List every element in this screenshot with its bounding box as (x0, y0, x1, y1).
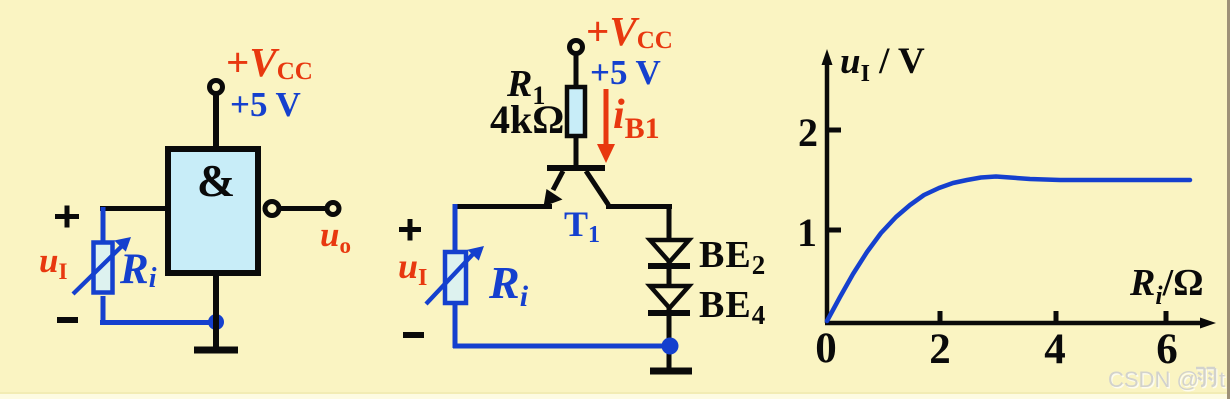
ground left (194, 347, 238, 354)
x tick 4 (1054, 311, 1059, 322)
current arrow iB1 (604, 89, 609, 148)
diode BE2 (650, 240, 689, 262)
x axis (825, 321, 1203, 326)
wire input down mid (blue) (453, 204, 458, 253)
wire Ri mid to bottom (blue) (453, 303, 458, 348)
node junction mid (blue dot) (662, 338, 679, 355)
svg-text:0: 0 (815, 325, 837, 372)
resistor R1 (567, 87, 585, 136)
diode BE4 (650, 286, 689, 308)
gate U1 box (168, 149, 258, 273)
terminal output (327, 203, 339, 215)
svg-text:t: t (1219, 367, 1225, 392)
wire Vcc to R1 (574, 54, 579, 88)
transistor T1 emitter (arrow) (553, 171, 563, 190)
x tick 2 (938, 311, 943, 322)
svg-text:+5 V: +5 V (230, 85, 301, 124)
watermark (1108, 367, 1226, 393)
wire bottom mid (blue) (453, 344, 670, 349)
wire gate to ground (213, 273, 219, 348)
label + mid (399, 219, 421, 241)
x tick 6 (1164, 311, 1169, 322)
arrow through Ri mid (426, 253, 474, 304)
wire gate input (100, 206, 165, 211)
wire BE2 to BE4 (667, 260, 672, 288)
inversion bubble (265, 202, 279, 216)
svg-text:4: 4 (1044, 326, 1066, 373)
wire BE4 to node (667, 306, 672, 368)
svg-text:4kΩ: 4kΩ (490, 97, 564, 142)
wire output (281, 206, 326, 211)
svg-text:+5 V: +5 V (590, 53, 661, 92)
svg-text:6: 6 (1156, 326, 1178, 373)
y axis (825, 62, 830, 323)
label minus mid (403, 332, 424, 338)
resistor Ri left (94, 243, 113, 293)
svg-text:2: 2 (929, 326, 951, 373)
terminal Vcc mid (570, 41, 583, 54)
label minus left (57, 317, 78, 323)
wire bottom (blue) (100, 320, 216, 325)
wire emitter to left (454, 204, 552, 209)
wire Vcc to gate (213, 94, 219, 150)
transistor T1 base bar (547, 165, 605, 171)
ground mid (650, 368, 692, 375)
wire down to diodes (667, 205, 672, 241)
svg-text:2: 2 (798, 110, 818, 155)
wire collector to right (606, 204, 672, 209)
svg-text:&: & (197, 155, 235, 206)
terminal Vcc left (210, 81, 223, 94)
svg-text:CSDN @: CSDN @ (1108, 367, 1199, 392)
wire input down (blue) (101, 207, 106, 241)
curve uI vs Ri (827, 177, 1190, 322)
label + left (55, 206, 79, 228)
svg-text:1: 1 (797, 210, 817, 255)
wire R1 to base (574, 138, 579, 168)
transistor T1 collector diagonal (586, 171, 609, 205)
node junction left (blue dot) (208, 314, 224, 330)
wire resistor to bottom (blue) (101, 296, 106, 325)
y tick 1 (827, 228, 841, 233)
resistor Ri mid (445, 252, 466, 303)
y tick 2 (827, 128, 841, 133)
arrow through Ri left (73, 245, 123, 294)
svg-text:uI / V: uI / V (840, 41, 925, 87)
svg-text:Ri/Ω: Ri/Ω (1129, 262, 1204, 310)
